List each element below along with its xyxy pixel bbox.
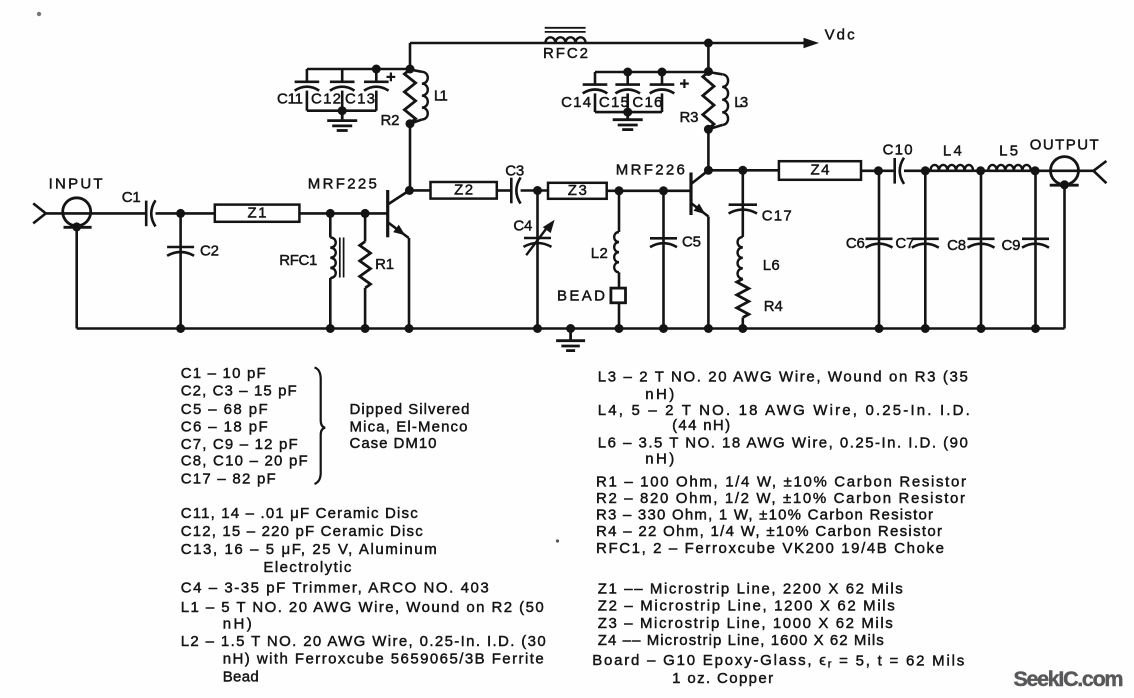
scan speck top left xyxy=(37,12,41,16)
junction rail xyxy=(615,324,624,333)
wire L3 bottom to Q2 collector xyxy=(707,129,710,170)
wire rail to first-stage feed xyxy=(409,43,412,69)
wire Vdc rail xyxy=(410,42,808,45)
scan speck mid xyxy=(556,539,559,542)
junction rail xyxy=(659,324,668,333)
junction R1 tap xyxy=(361,209,370,218)
junction Q2 collector node xyxy=(704,166,713,175)
svg-text:C5: C5 xyxy=(682,233,701,250)
capacitor C11 xyxy=(295,69,320,111)
wire L4 to L5 xyxy=(973,170,988,173)
capacitor C16 xyxy=(650,72,675,112)
junction rail xyxy=(1031,324,1040,333)
junction C9 tap xyxy=(1031,166,1040,175)
svg-text:Z2: Z2 xyxy=(454,182,473,199)
resistor R1 xyxy=(360,213,371,328)
output Y terminal xyxy=(1094,161,1107,183)
capacitor C2 xyxy=(167,213,194,328)
svg-text:C13, 16 – 5 μF, 25 V, Aluminum: C13, 16 – 5 μF, 25 V, Aluminum xyxy=(181,541,437,558)
svg-text:Electrolytic: Electrolytic xyxy=(263,559,352,576)
inductor L6 xyxy=(738,237,743,279)
svg-text:C7, C9 – 12 pF: C7, C9 – 12 pF xyxy=(181,436,298,453)
svg-text:L1 – 5 T NO. 20 AWG Wire, Woun: L1 – 5 T NO. 20 AWG Wire, Wound on R2 (5… xyxy=(181,599,544,616)
inductor L3 xyxy=(708,72,722,74)
wire bead to rail xyxy=(618,303,621,329)
svg-text:SeekIC.com: SeekIC.com xyxy=(1014,667,1124,691)
junction output connector ground xyxy=(1060,180,1069,189)
svg-text:1 oz. Copper: 1 oz. Copper xyxy=(672,670,773,687)
parts list left column xyxy=(181,365,546,685)
junction RFC1 tap xyxy=(326,209,335,218)
svg-text:L3 – 2 T NO. 20 AWG Wire, Woun: L3 – 2 T NO. 20 AWG Wire, Wound on R3 (3… xyxy=(598,369,968,386)
output coax connector circle xyxy=(1051,157,1079,185)
note dipped silvered mica xyxy=(350,401,470,452)
junction ground C12 bottom xyxy=(338,106,347,115)
svg-text:Z3: Z3 xyxy=(568,182,587,199)
wire C14-C16 bottom bus xyxy=(595,111,662,114)
wire Q1 collector to Z2 xyxy=(409,189,430,192)
junction C7 tap xyxy=(921,166,930,175)
capacitor C6 xyxy=(866,171,893,329)
wire C14-C16 top bus xyxy=(595,71,708,74)
ferrite bead xyxy=(611,288,626,303)
svg-text:C16: C16 xyxy=(632,94,662,111)
svg-text:Z1 –– Microstrip Line, 2200 X: Z1 –– Microstrip Line, 2200 X 62 Mils xyxy=(598,580,903,597)
svg-text:Z4 –– Microstrip Line, 1600 X: Z4 –– Microstrip Line, 1600 X 62 Mils xyxy=(598,632,884,649)
svg-text:C15: C15 xyxy=(599,94,629,111)
svg-text:C7: C7 xyxy=(895,235,914,252)
wire input to C1 xyxy=(46,212,146,215)
transistor Q2 base bar xyxy=(689,173,692,216)
svg-text:R1: R1 xyxy=(375,256,394,273)
svg-text:C8, C10 – 20 pF: C8, C10 – 20 pF xyxy=(181,453,308,470)
svg-text:C4 – 3-35 pF Trimmer, ARCO NO.: C4 – 3-35 pF Trimmer, ARCO NO. 403 xyxy=(181,580,489,597)
svg-text:nH): nH) xyxy=(223,616,252,633)
resistor R2 xyxy=(404,70,415,124)
svg-text:R3 – 330 Ohm, 1 W, ±10% Carbon: R3 – 330 Ohm, 1 W, ±10% Carbon Resistor xyxy=(596,506,933,523)
wire L1 bottom to Q1 collector xyxy=(409,124,412,191)
capacitor C1 xyxy=(145,201,148,227)
ground under C14-C16 xyxy=(626,112,629,118)
transistor Q1 emitter lead with arrow xyxy=(388,222,409,238)
resistor R3 xyxy=(703,72,714,129)
svg-text:C8: C8 xyxy=(947,237,966,254)
svg-text:C2, C3 – 15 pF: C2, C3 – 15 pF xyxy=(181,383,297,400)
choke RFC2 xyxy=(545,28,586,43)
svg-text:(44 nH): (44 nH) xyxy=(672,417,730,434)
svg-text:C6: C6 xyxy=(846,235,865,252)
junction ground tap xyxy=(566,324,575,333)
junction rail xyxy=(405,324,414,333)
svg-text:RFC1, 2 – Ferroxcube VK200 19/: RFC1, 2 – Ferroxcube VK200 19/4B Choke xyxy=(596,540,944,557)
svg-text:C3: C3 xyxy=(505,163,524,180)
transistor Q1 base bar xyxy=(386,190,389,237)
svg-text:C14: C14 xyxy=(561,94,591,111)
svg-text:OUTPUT: OUTPUT xyxy=(1030,136,1099,153)
junction C5 tap xyxy=(659,186,668,195)
transistor Q1 collector lead xyxy=(388,190,410,204)
junction C8 tap xyxy=(976,166,985,175)
capacitor C15 xyxy=(615,72,640,112)
plus sign C13 polarity xyxy=(387,73,396,82)
junction C6 tap xyxy=(874,166,883,175)
plus sign C16 polarity xyxy=(680,79,689,88)
svg-text:L5: L5 xyxy=(999,142,1018,159)
svg-text:C6 – 18 pF: C6 – 18 pF xyxy=(181,418,268,435)
junction rail xyxy=(875,324,884,333)
input connector bar xyxy=(64,226,92,229)
capacitor C12 xyxy=(330,69,355,111)
junction C2 tap xyxy=(176,209,185,218)
junction R3/L3 bottom xyxy=(704,125,713,134)
svg-text:R2: R2 xyxy=(381,112,400,129)
wire rail tap down to stage-2 decoupling xyxy=(707,43,710,72)
choke RFC1 xyxy=(330,213,343,328)
microstrip Z4 xyxy=(779,161,861,180)
Vdc arrow xyxy=(804,38,820,48)
inductor L5 xyxy=(988,165,1031,171)
junction rail xyxy=(361,324,370,333)
svg-text:Dipped Silvered: Dipped Silvered xyxy=(350,401,470,418)
capacitor C14 xyxy=(583,72,608,112)
svg-text:C17: C17 xyxy=(762,207,792,224)
svg-text:Z4: Z4 xyxy=(811,162,830,179)
svg-text:Case DM10: Case DM10 xyxy=(350,435,437,452)
junction C16 top xyxy=(658,68,667,77)
svg-text:C1: C1 xyxy=(122,189,141,206)
svg-text:C11, 14 – .01 μF Ceramic Disc: C11, 14 – .01 μF Ceramic Disc xyxy=(181,505,419,522)
wire Z4 to C10 xyxy=(861,170,895,173)
capacitor C8 xyxy=(968,171,995,329)
svg-text:C11: C11 xyxy=(277,90,303,107)
wire ground rail xyxy=(77,327,1065,330)
svg-text:C10: C10 xyxy=(883,142,913,159)
wire output connector to rail xyxy=(1063,185,1066,328)
brace for mica caps xyxy=(315,368,326,485)
svg-text:Vdc: Vdc xyxy=(825,26,856,43)
input coax connector circle xyxy=(63,198,91,226)
svg-text:C5 – 68 pF: C5 – 68 pF xyxy=(181,401,268,418)
capacitor C7 xyxy=(912,171,939,329)
inductor L1 xyxy=(410,70,422,72)
capacitor C5 xyxy=(650,191,677,329)
capacitor C3 xyxy=(510,178,513,204)
input Y terminal xyxy=(33,203,46,223)
svg-text:Bead: Bead xyxy=(223,669,259,686)
junction ground C15 bottom xyxy=(623,108,632,117)
transistor Q2 collector lead xyxy=(691,170,708,184)
svg-text:nH): nH) xyxy=(645,451,674,468)
svg-text:L6: L6 xyxy=(763,257,780,274)
junction R3/L3 top xyxy=(704,67,713,76)
capacitor C9 xyxy=(1022,171,1049,329)
wire Z1 to Q1 base xyxy=(299,212,387,215)
wire Q1 emitter to rail xyxy=(408,238,411,329)
junction rail xyxy=(977,324,986,333)
svg-text:R4: R4 xyxy=(764,298,783,315)
wire input connector to ground rail xyxy=(75,227,78,328)
wire Q2 emitter to rail xyxy=(707,217,710,329)
junction rail xyxy=(176,324,185,333)
svg-text:C9: C9 xyxy=(1002,237,1021,254)
svg-text:L4: L4 xyxy=(943,142,962,159)
svg-text:C1 – 10 pF: C1 – 10 pF xyxy=(181,365,266,382)
svg-text:MRF226: MRF226 xyxy=(616,162,685,179)
junction C17 tap xyxy=(738,166,747,175)
svg-text:C12, 15 – 220 pF Ceramic Disc: C12, 15 – 220 pF Ceramic Disc xyxy=(181,523,424,540)
svg-text:R4 – 22 Ohm, 1/4 W, ±10% Carbo: R4 – 22 Ohm, 1/4 W, ±10% Carbon Resistor xyxy=(596,523,942,540)
svg-text:C12: C12 xyxy=(311,90,341,107)
parts list right column xyxy=(592,369,970,688)
transistor Q2 emitter lead with arrow xyxy=(691,203,708,217)
wire Q2 collector to Z4 xyxy=(708,169,779,172)
wire Z3 to Q2 base xyxy=(607,190,691,193)
svg-text:BEAD: BEAD xyxy=(557,288,605,305)
junction R2/L1 bottom xyxy=(406,119,415,128)
svg-text:Mica, El-Menco: Mica, El-Menco xyxy=(350,418,468,435)
svg-text:Z3 – Microstrip Line, 1000 X 6: Z3 – Microstrip Line, 1000 X 62 Mils xyxy=(598,615,893,632)
svg-text:nH) with Ferroxcube 5659065/3B: nH) with Ferroxcube 5659065/3B Ferrite xyxy=(223,650,544,667)
junction rail xyxy=(921,324,930,333)
junction C4 tap xyxy=(533,186,542,195)
svg-text:L1: L1 xyxy=(434,88,448,105)
svg-text:nH): nH) xyxy=(645,386,674,403)
junction rail xyxy=(326,324,335,333)
capacitor C13 xyxy=(364,69,389,111)
wire Z2 to C3 xyxy=(497,189,512,192)
ground symbol mid rail xyxy=(569,329,572,340)
junction L1/R2 top xyxy=(406,65,415,74)
wire C11-C13 bottom bus xyxy=(307,109,376,112)
svg-text:INPUT: INPUT xyxy=(49,175,103,192)
junction input connector ground xyxy=(72,222,81,231)
wire C1 to Z1 xyxy=(156,212,215,215)
resistor R4 xyxy=(737,279,749,329)
wire C11-C13 top bus xyxy=(307,68,410,71)
svg-text:RFC2: RFC2 xyxy=(543,45,588,62)
output connector bar xyxy=(1050,184,1079,187)
svg-text:L6 – 3.5 T NO. 18 AWG Wire, 0.: L6 – 3.5 T NO. 18 AWG Wire, 0.25-In. I.D… xyxy=(598,434,968,451)
svg-text:C4: C4 xyxy=(513,218,532,235)
svg-text:Board – G10 Epoxy-Glass, ϵr =: Board – G10 Epoxy-Glass, ϵr = 5, t = 62 … xyxy=(592,652,964,671)
wire C10 to L4 xyxy=(904,170,930,173)
junction rail xyxy=(704,324,713,333)
junction rail xyxy=(738,324,747,333)
svg-text:Z2 – Microstrip Line, 1200 X 6: Z2 – Microstrip Line, 1200 X 62 Mils xyxy=(598,598,895,615)
inductor L2 xyxy=(614,191,619,288)
svg-text:L3: L3 xyxy=(734,94,748,111)
ground under C11-C13 xyxy=(341,111,344,120)
svg-text:L2: L2 xyxy=(591,245,608,262)
trimmer capacitor C4 xyxy=(524,191,555,329)
svg-text:C13: C13 xyxy=(345,90,375,107)
svg-text:R2 – 820 Ohm, 1/2 W, ±10% Carb: R2 – 820 Ohm, 1/2 W, ±10% Carbon Resisto… xyxy=(596,490,965,507)
junction rail xyxy=(533,324,542,333)
wire L5 to output xyxy=(1031,170,1094,173)
microstrip Z1 xyxy=(215,205,300,222)
microstrip Z3 xyxy=(548,183,607,199)
svg-text:MRF225: MRF225 xyxy=(308,176,377,193)
svg-text:C2: C2 xyxy=(200,242,219,259)
junction Vdc tap stage2 xyxy=(704,39,713,48)
svg-text:L4, 5 – 2 T NO. 18 AWG Wire, 0: L4, 5 – 2 T NO. 18 AWG Wire, 0.25-In. I.… xyxy=(598,402,970,419)
svg-text:Z1: Z1 xyxy=(248,205,267,222)
svg-text:R1 – 100 Ohm, 1/4 W, ±10% Carb: R1 – 100 Ohm, 1/4 W, ±10% Carbon Resisto… xyxy=(596,474,966,491)
svg-text:L2 – 1.5 T NO. 20 AWG Wire, 0.: L2 – 1.5 T NO. 20 AWG Wire, 0.25-In. I.D… xyxy=(181,633,546,650)
capacitor C10 xyxy=(893,158,896,184)
svg-text:RFC1: RFC1 xyxy=(279,252,317,269)
junction C15 top xyxy=(623,68,632,77)
capacitor C17 xyxy=(729,170,757,237)
junction C13 top xyxy=(372,65,381,74)
svg-text:C17 – 82 pF: C17 – 82 pF xyxy=(181,471,276,488)
junction Q1 collector node xyxy=(405,186,414,195)
wire C3 to Z3 xyxy=(521,189,548,192)
inductor L4 xyxy=(930,165,973,171)
microstrip Z2 xyxy=(431,182,497,199)
junction L2 tap xyxy=(615,186,624,195)
svg-text:R3: R3 xyxy=(680,109,699,126)
